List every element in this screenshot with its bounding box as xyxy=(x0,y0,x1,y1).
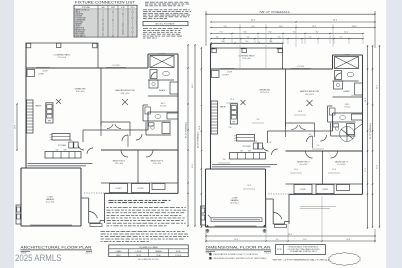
right plan bottom dimension line 1 xyxy=(206,235,375,237)
lower notes paragraph xyxy=(101,231,106,233)
svg-text:1/2: 1/2 xyxy=(131,28,133,30)
svg-text:16'-0: 16'-0 xyxy=(15,125,17,129)
bath 2 walls xyxy=(145,122,147,135)
svg-text:20'-8: 20'-8 xyxy=(365,98,367,102)
kitchen island xyxy=(52,134,70,141)
svg-text:9'-6: 9'-6 xyxy=(257,119,260,121)
svg-text:X: X xyxy=(132,34,133,36)
svg-text:12'-4: 12'-4 xyxy=(230,99,234,101)
svg-text:1/2: 1/2 xyxy=(102,34,104,36)
svg-text:1/2: 1/2 xyxy=(102,28,104,30)
svg-text:1,478 SF: 1,478 SF xyxy=(135,251,141,253)
svg-text:ALL PLANS PER 2018 IRC: ALL PLANS PER 2018 IRC xyxy=(138,258,159,261)
overall width dimension line xyxy=(206,13,375,15)
right patio pillar right xyxy=(278,48,282,52)
svg-text:1/2: 1/2 xyxy=(131,32,133,34)
svg-text:X: X xyxy=(112,26,113,28)
svg-text:1/2: 1/2 xyxy=(122,32,124,34)
entry door arc xyxy=(89,212,97,219)
svg-text:11'-2: 11'-2 xyxy=(303,239,306,241)
mech pad x-box xyxy=(150,56,174,68)
svg-text:21'-4: 21'-4 xyxy=(192,164,194,168)
mud hall door arcs xyxy=(78,144,84,150)
dimension witness extension lines xyxy=(239,24,241,47)
svg-text:M.BATH: M.BATH xyxy=(159,89,166,92)
right plan bottom dimension line 2 xyxy=(265,240,266,241)
svg-text:65'-8″ OVERALL: 65'-8″ OVERALL xyxy=(185,121,188,138)
soffit dashed line xyxy=(84,192,109,194)
bath 2 toilet xyxy=(151,126,155,130)
svg-text:493 SF: 493 SF xyxy=(176,251,181,253)
svg-text:168 SF: 168 SF xyxy=(136,255,141,257)
dimensional title underline xyxy=(206,249,272,251)
svg-text:1/2: 1/2 xyxy=(112,12,114,14)
svg-text:11'-0: 11'-0 xyxy=(344,31,348,33)
svg-text:FIXTURE: FIXTURE xyxy=(82,7,90,9)
column marker symbol right xyxy=(263,229,266,232)
svg-text:20'-0: 20'-0 xyxy=(234,239,238,241)
svg-text:11'-4: 11'-4 xyxy=(332,169,336,171)
bedroom2 / bedroom3 dividing wall xyxy=(137,150,139,183)
column marker symbol left xyxy=(206,229,209,232)
svg-text:8'-8: 8'-8 xyxy=(244,31,247,33)
window marks on top wall xyxy=(36,66,50,68)
svg-text:INDICATES DOME LIGHT LOCATION: INDICATES DOME LIGHT LOCATION xyxy=(214,253,259,256)
dimension tier 2 xyxy=(211,21,375,23)
interior dim witness marks xyxy=(226,102,238,104)
svg-text:9'-6 x 6'-0: 9'-6 x 6'-0 xyxy=(160,106,166,108)
bedroom 3 window mark xyxy=(134,192,148,194)
svg-text:A/C SQ. FOOTAGE: A/C SQ. FOOTAGE xyxy=(155,23,175,26)
svg-text:SINK: SINK xyxy=(63,150,66,152)
hall walls xyxy=(82,130,84,142)
svg-text:5'-0: 5'-0 xyxy=(340,36,343,38)
svg-text:1/2: 1/2 xyxy=(122,14,124,16)
svg-text:KITCHEN: KITCHEN xyxy=(58,145,67,147)
house right wall xyxy=(177,54,179,193)
right patio top correction cover xyxy=(212,44,283,48)
svg-text:16'-0 WDW: 16'-0 WDW xyxy=(112,65,120,67)
svg-text:29'-0: 29'-0 xyxy=(333,20,337,22)
bedroom area bottom exterior wall xyxy=(105,192,179,194)
svg-text:2 CAR: 2 CAR xyxy=(47,196,53,199)
svg-text:SEW: SEW xyxy=(111,7,115,9)
svg-text:26'-0: 26'-0 xyxy=(251,20,255,22)
bath 2 tub xyxy=(162,123,170,134)
svg-text:4'-6: 4'-6 xyxy=(216,36,219,38)
kitchen ceiling fan symbol xyxy=(56,99,61,104)
right patio top wall xyxy=(212,47,283,49)
svg-text:1/2: 1/2 xyxy=(131,12,133,14)
patio interior witness lines (right plan) xyxy=(239,45,241,69)
svg-text:20'-0 x 24'-8: 20'-0 x 24'-8 xyxy=(46,202,54,204)
svg-text:7'-4: 7'-4 xyxy=(276,239,279,241)
svg-text:16'-6: 16'-6 xyxy=(346,239,350,241)
exterior wall note box xyxy=(275,245,325,255)
svg-text:7'-4: 7'-4 xyxy=(293,31,296,33)
door swing detail circle xyxy=(340,127,355,142)
legend bullet 1 xyxy=(210,253,212,255)
svg-text:X: X xyxy=(112,24,113,26)
bedroom wing note heading xyxy=(109,199,114,201)
svg-text:1/2: 1/2 xyxy=(122,24,124,26)
svg-text:1/4"=1'-0": 1/4"=1'-0" xyxy=(86,253,93,255)
svg-text:8'-4: 8'-4 xyxy=(252,26,255,28)
fixture connection list table xyxy=(74,5,137,37)
svg-text:HOSE BIBB (3): HOSE BIBB (3) xyxy=(75,36,86,38)
title underline xyxy=(21,249,93,251)
svg-text:VENT: VENT xyxy=(130,7,134,9)
svg-text:65'-8″ OVERALL: 65'-8″ OVERALL xyxy=(197,131,200,148)
bedroom hall wall xyxy=(101,149,178,151)
right plan right-outer dimension line xyxy=(367,46,369,228)
svg-text:3'-8: 3'-8 xyxy=(223,159,226,161)
svg-text:1/2: 1/2 xyxy=(102,24,104,26)
linen closet xyxy=(152,184,165,190)
covered patio outline xyxy=(26,43,98,68)
patio pillar middle xyxy=(57,43,61,47)
svg-text:7'-0: 7'-0 xyxy=(351,95,354,97)
dimension tier 5 xyxy=(211,38,363,40)
garage walls xyxy=(20,168,22,226)
svg-text:CLOSET: CLOSET xyxy=(115,188,121,190)
svg-text:2,139 SF: 2,139 SF xyxy=(175,255,181,257)
svg-text:ARCHITECTURAL FLOOR PLAN: ARCHITECTURAL FLOOR PLAN xyxy=(21,245,92,250)
svg-text:X: X xyxy=(122,28,123,30)
svg-text:BEDROOM #3: BEDROOM #3 xyxy=(151,161,163,163)
svg-text:INDICATES HOLIDAY LIGHTING OUT: INDICATES HOLIDAY LIGHTING OUTLET (SWITC… xyxy=(214,257,267,260)
svg-text:12'-2: 12'-2 xyxy=(312,26,316,28)
svg-text:COVERED PATIO: COVERED PATIO xyxy=(54,54,71,57)
left margin band xyxy=(0,0,14,268)
square footage table xyxy=(109,245,189,257)
foyer closet xyxy=(27,70,35,77)
legend bullet 2 xyxy=(210,257,212,259)
svg-text:2025 ARMLS: 2025 ARMLS xyxy=(15,253,62,263)
svg-text:1/4"=1'-0": 1/4"=1'-0" xyxy=(265,253,272,255)
svg-text:2'-6: 2'-6 xyxy=(269,142,272,144)
kitchen counter run along garage wall xyxy=(45,152,81,159)
svg-text:REF ICEMKR: REF ICEMKR xyxy=(75,34,85,36)
svg-text:X: X xyxy=(102,36,103,38)
soffit note leader xyxy=(208,215,211,218)
code note text block xyxy=(145,1,149,3)
right plan left-side dimension line xyxy=(200,48,202,104)
general notes paragraph xyxy=(143,9,147,11)
bedroom 2 closet xyxy=(110,184,128,193)
svg-text:19'-6 x 16'-4: 19'-6 x 16'-4 xyxy=(76,91,85,93)
svg-text:1/2: 1/2 xyxy=(122,26,124,28)
svg-text:11'-0 x 10'-6: 11'-0 x 10'-6 xyxy=(115,163,123,165)
svg-text:FIXTURE CONNECTION LIST: FIXTURE CONNECTION LIST xyxy=(75,1,135,5)
svg-text:5'-0: 5'-0 xyxy=(247,36,250,38)
svg-text:10'-0: 10'-0 xyxy=(279,26,283,28)
utility room walls xyxy=(142,105,144,121)
svg-text:14'-6: 14'-6 xyxy=(298,111,302,113)
svg-text:1/2: 1/2 xyxy=(102,20,104,22)
svg-text:6'-8: 6'-8 xyxy=(229,127,232,129)
sq footage listing lines xyxy=(143,28,148,30)
master bedroom walls xyxy=(100,68,102,126)
svg-text:SLIDER: SLIDER xyxy=(42,71,47,73)
entry walls xyxy=(81,197,89,199)
svg-text:55'-0: 55'-0 xyxy=(288,234,292,236)
right side dimension line inner xyxy=(187,45,189,226)
patio pillar left xyxy=(26,43,30,47)
dimension tier 6 (patio) xyxy=(211,42,283,44)
master bath vanity xyxy=(148,95,178,97)
house left wall xyxy=(25,43,27,133)
bedroom 2 window mark xyxy=(112,192,126,194)
svg-text:TUB/SHWR: TUB/SHWR xyxy=(75,14,84,16)
garage note text xyxy=(28,163,93,165)
svg-text:55'-0″ OVERALL: 55'-0″ OVERALL xyxy=(260,11,292,14)
right patio pillar left xyxy=(212,48,216,52)
svg-text:8'-2: 8'-2 xyxy=(316,31,319,33)
svg-text:24'-2: 24'-2 xyxy=(192,84,194,88)
garage soffit note box (dimensional plan) xyxy=(211,218,262,222)
svg-text:14'-6 x 13'-0: 14'-6 x 13'-0 xyxy=(121,93,130,95)
svg-text:X: X xyxy=(122,22,123,24)
right margin band xyxy=(386,0,402,268)
pantry cabinet on left wall xyxy=(27,100,34,133)
svg-text:10'-2: 10'-2 xyxy=(247,185,251,187)
svg-text:BEDROOM #2: BEDROOM #2 xyxy=(113,161,125,163)
svg-text:1/2: 1/2 xyxy=(122,30,124,32)
svg-text:13'-10: 13'-10 xyxy=(352,26,357,28)
entry stoop xyxy=(90,224,102,227)
linen xyxy=(167,113,178,119)
svg-text:5'-0: 5'-0 xyxy=(317,145,320,147)
svg-text:21'-0 x 8'-0: 21'-0 x 8'-0 xyxy=(58,57,66,59)
right patio pillar middle xyxy=(242,48,246,52)
below-plan witness lines (right plan) xyxy=(265,196,267,240)
svg-text:7'-0: 7'-0 xyxy=(220,31,223,33)
svg-text:SHOWER: SHOWER xyxy=(75,16,83,18)
svg-text:1/2: 1/2 xyxy=(112,20,114,22)
svg-text:4'-2: 4'-2 xyxy=(309,134,312,136)
water heater closet xyxy=(16,205,21,224)
svg-text:W/D: W/D xyxy=(70,140,73,142)
utility sink xyxy=(155,115,161,119)
svg-text:SEE SHT. #4 FOR SHEAR/BRACE WA: SEE SHT. #4 FOR SHEAR/BRACE WALL SCHEDUL… xyxy=(272,258,330,261)
bedrooms bottom wall xyxy=(101,182,178,184)
svg-text:DIMENSIONAL FLOOR PLAN: DIMENSIONAL FLOOR PLAN xyxy=(206,245,271,250)
hall closet row wall xyxy=(101,121,130,123)
svg-text:CLOSET: CLOSET xyxy=(137,188,143,190)
svg-text:DRYER: DRYER xyxy=(75,26,81,28)
bedroom 2 door arc xyxy=(121,150,128,157)
detail circle leader xyxy=(354,124,362,130)
master bedroom fan symbol xyxy=(122,99,128,105)
svg-text:8'-4: 8'-4 xyxy=(269,31,272,33)
svg-text:GARAGE: GARAGE xyxy=(46,198,55,201)
bedroom 3 door arc xyxy=(146,150,153,157)
dimension tier 3 xyxy=(211,27,375,29)
svg-text:MASTER BEDROOM: MASTER BEDROOM xyxy=(115,89,135,92)
svg-text:8'-0: 8'-0 xyxy=(246,41,249,43)
washer dryer boxes xyxy=(69,142,73,148)
svg-text:5'-4: 5'-4 xyxy=(309,36,312,38)
kitchen oven/ref cabinet stack xyxy=(46,103,53,123)
dimension tier 4 xyxy=(211,33,363,35)
master water closet xyxy=(149,80,158,88)
svg-text:1/2: 1/2 xyxy=(122,34,124,36)
left side short dimension line xyxy=(16,104,18,150)
house top wall xyxy=(26,67,148,69)
svg-text:11'-4 x 10'-6: 11'-4 x 10'-6 xyxy=(153,163,161,165)
svg-text:1/2: 1/2 xyxy=(131,18,133,20)
county note paragraph xyxy=(107,207,109,209)
svg-text:X: X xyxy=(112,30,113,32)
see sheet note top-right of dimensional plan xyxy=(300,206,336,208)
svg-text:CLOSET: CLOSET xyxy=(38,74,44,76)
dimensional floor plan (duplicate geometry shifted right) xyxy=(199,44,380,228)
sq footage box header xyxy=(143,22,188,26)
svg-text:REF: REF xyxy=(48,120,51,122)
svg-text:1/2: 1/2 xyxy=(112,36,114,38)
revision cloud xyxy=(329,253,361,266)
hall door arcs cluster xyxy=(122,135,128,141)
svg-text:KITCHEN SINK: KITCHEN SINK xyxy=(75,18,86,20)
svg-text:17'-2: 17'-2 xyxy=(365,168,367,172)
patio pillar right xyxy=(93,43,97,47)
bedroom 3 closet xyxy=(132,184,150,193)
svg-text:X: X xyxy=(102,22,103,24)
house-garage left wall jog xyxy=(25,133,27,168)
floor plan (shared geometry, drawn at architectural-plan position) xyxy=(15,43,196,227)
svg-text:X: X xyxy=(102,26,103,28)
master bath fixtures xyxy=(148,79,174,81)
svg-text:X: X xyxy=(112,34,113,36)
svg-text:X: X xyxy=(112,22,113,24)
garage door opening xyxy=(30,224,72,226)
hall closet bifold arcs xyxy=(107,124,113,128)
master bath wing walls xyxy=(147,54,149,68)
svg-text:1/2: 1/2 xyxy=(102,30,104,32)
svg-text:W.I.C.: W.I.C. xyxy=(161,103,166,105)
walk-in closet xyxy=(148,111,178,113)
right side dimension line outer xyxy=(194,45,196,226)
svg-text:GREAT RM: GREAT RM xyxy=(75,88,86,91)
svg-text:X: X xyxy=(122,16,123,18)
svg-text:11'-0: 11'-0 xyxy=(294,169,298,171)
svg-text:5'-8: 5'-8 xyxy=(278,36,281,38)
svg-text:9'-8: 9'-8 xyxy=(224,26,227,28)
